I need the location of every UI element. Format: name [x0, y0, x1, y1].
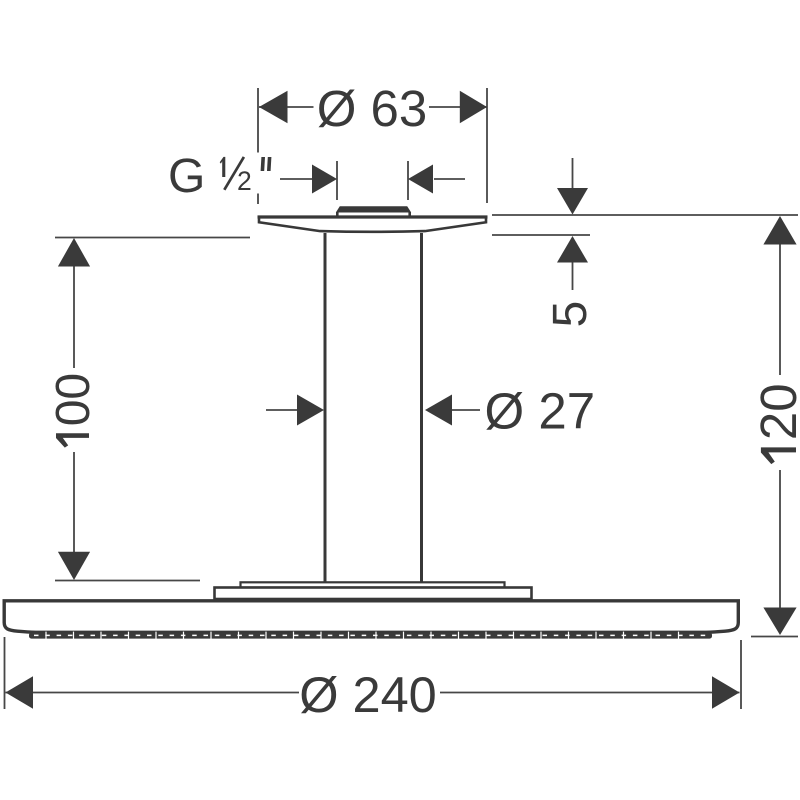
- svg-text:00: 00: [47, 373, 100, 426]
- svg-text:20: 20: [750, 383, 800, 440]
- svg-text:Ø 27: Ø 27: [485, 383, 596, 440]
- svg-text:Ø 240: Ø 240: [299, 666, 437, 723]
- svg-text:5: 5: [544, 301, 597, 328]
- svg-text:Ø 63: Ø 63: [317, 80, 428, 137]
- svg-text:G: G: [168, 150, 205, 203]
- svg-text:2: 2: [237, 166, 252, 196]
